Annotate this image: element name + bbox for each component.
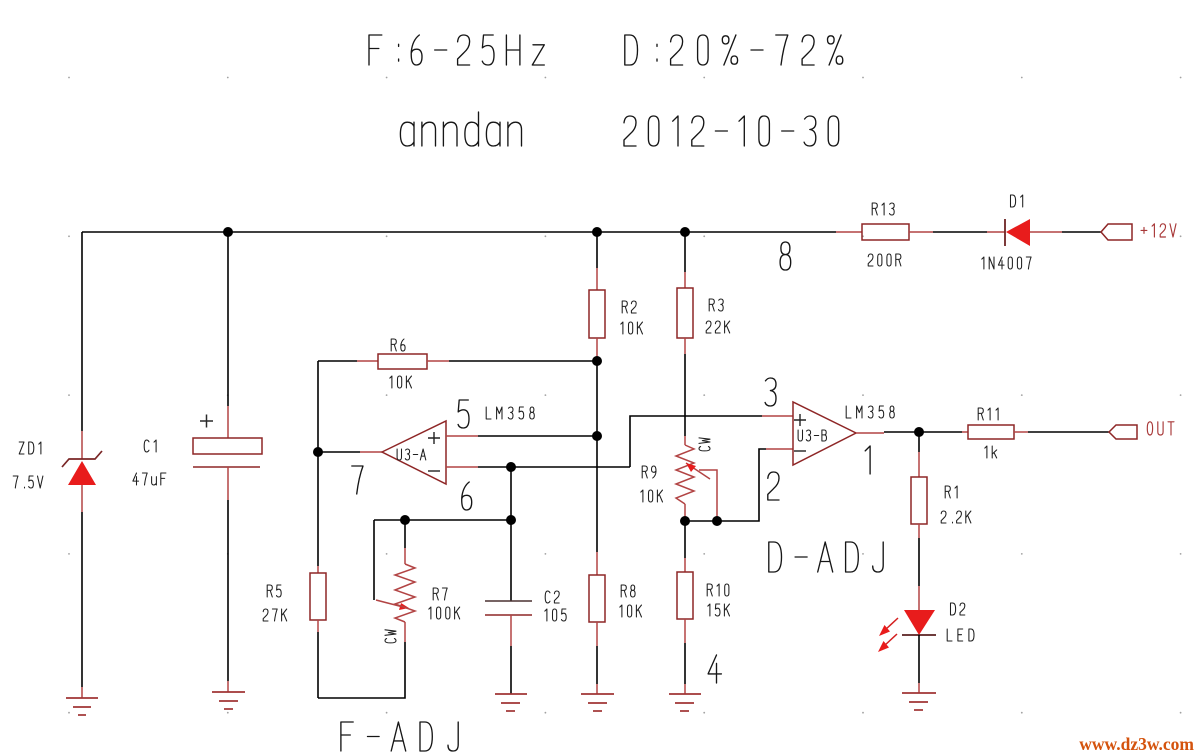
zener ZD1 bar (62, 451, 102, 467)
resistor R8 (589, 575, 605, 622)
pin number 3 (765, 378, 776, 406)
wire U3-A minus red stub (446, 466, 478, 468)
label LM358 A (486, 407, 534, 419)
junction node output/R1 (914, 427, 924, 437)
wire R10 red stub bottom (684, 619, 686, 643)
junction node R6/R2 (592, 356, 602, 366)
capacitor C1 positive plate (193, 438, 262, 454)
wire C1 red stub top (227, 406, 229, 438)
pin number 4 (708, 655, 721, 683)
led D2 cathode bar (902, 634, 936, 636)
label R11 (978, 408, 998, 420)
junction node C2 top (506, 515, 516, 525)
potentiometer R9 zigzag (676, 445, 694, 504)
wire ZD1 column lower (81, 512, 83, 687)
ground ZD1 (66, 698, 98, 715)
label LM358 B (846, 406, 894, 418)
wire R6 right lead black to R2 column (449, 360, 597, 362)
wire R7 top lead red (404, 548, 406, 564)
wire R1 top red (918, 452, 920, 477)
label CW R7 (385, 630, 396, 643)
net label +12V (1141, 224, 1176, 237)
label R10 (707, 584, 729, 596)
value 100K (429, 607, 460, 619)
wire R7 wiper left leg (373, 520, 375, 600)
pin number 1 (865, 446, 870, 474)
wire C1 column lower (227, 500, 229, 681)
wire C1 column upper (227, 232, 229, 406)
resistor R3 (677, 288, 693, 338)
junction node rail/R3 (680, 227, 690, 237)
op-amp U3-B minus sign (794, 450, 806, 452)
label D2 (951, 603, 965, 615)
wire R11 right red stub (1014, 431, 1028, 433)
wire C1 ground stub (227, 681, 229, 692)
junction node R9 bottom (680, 516, 690, 526)
wire D2 bottom (918, 635, 920, 683)
wire D1 to +12V port (1062, 231, 1101, 233)
title anndan (400, 112, 521, 146)
wire R8 red stub bottom (596, 622, 598, 646)
wire rail red stub left of R13 (836, 231, 862, 233)
pin number 6 (462, 482, 472, 510)
label R9 (642, 466, 656, 478)
wire R7 top lead black (404, 520, 406, 548)
pin number 5 (458, 400, 469, 428)
label R2 (622, 301, 636, 313)
wire R6 right lead red (427, 360, 449, 362)
wire R7 bottom to F-ADJ loop (318, 642, 405, 698)
wire R9 red stub bottom (684, 504, 686, 521)
wire D2 top red stub (918, 586, 920, 610)
wire R10 ground stub (684, 684, 686, 694)
value 2.2K (941, 511, 971, 523)
wire U3-A minus across (478, 466, 630, 468)
resistor R11 (968, 425, 1014, 439)
wire rail to D1 (933, 231, 987, 233)
label U3-B (798, 430, 826, 441)
wire R10 column lower (684, 643, 686, 684)
value 27K (263, 609, 287, 621)
wire C2 bottom red (510, 615, 512, 646)
port OUT flag (1109, 425, 1137, 439)
resistor R10 (677, 572, 693, 619)
label R13 (872, 203, 894, 215)
junction node wiper bottom (712, 516, 722, 526)
wire R5 red stub top (317, 566, 319, 573)
wire R3 red stub top (684, 272, 686, 288)
label D-ADJ (769, 542, 883, 572)
label CW R9 (699, 438, 710, 451)
value LED (947, 629, 974, 641)
diode D1 body (1006, 219, 1030, 246)
ground C2 (495, 694, 527, 711)
junction node R7 top (400, 515, 410, 525)
wire U3-A output red stub (360, 451, 382, 453)
ground R8 (581, 694, 614, 711)
wire U3-B output red stub (856, 432, 884, 434)
wire R9 bottom to U3-B minus riser (685, 449, 766, 521)
op-amp U3-A minus sign (428, 470, 440, 472)
junction node minus/C2 riser (506, 462, 516, 472)
wire R11 to OUT port (1028, 431, 1109, 433)
wire red stub U3-B plus (762, 415, 793, 417)
wire R5 red stub bottom (317, 620, 319, 632)
value 200R (868, 254, 901, 266)
wire ZD1 ground stub (81, 687, 83, 698)
wire rail red stub right of R13 (909, 231, 933, 233)
label C2 (545, 591, 559, 603)
wire R6 left lead red (357, 360, 378, 362)
capacitor C1 plus sign (200, 415, 213, 428)
junction node rail/C1 (223, 227, 233, 237)
pin number 7 (352, 466, 363, 494)
wire R2 red stub bottom (596, 338, 598, 361)
value 7.5V (13, 476, 43, 488)
wire R3 red stub bottom (684, 338, 686, 354)
value 105 (545, 609, 566, 621)
wire D2 ground stub (918, 683, 920, 693)
op-amp U3-A (382, 421, 446, 484)
label R1 (945, 486, 957, 498)
op-amp U3-B (793, 402, 856, 465)
wire U3-A plus to R2 column (478, 435, 597, 437)
title F:6-25Hz (369, 35, 544, 65)
capacitor C1 negative plate (193, 466, 260, 468)
value 10K R2 (621, 322, 643, 334)
wire R3 to R9 (684, 354, 686, 436)
resistor R1 (911, 477, 927, 524)
wire R10 red stub top (684, 558, 686, 572)
wire R7 top rail (374, 519, 511, 521)
label R5 (267, 585, 281, 597)
label R6 (391, 339, 405, 351)
led D2 light arrows (878, 618, 898, 652)
capacitor C2 top plate (485, 600, 532, 602)
wire ZD1 red stub top (81, 431, 83, 459)
wire top rail black (82, 231, 836, 233)
wire C2 riser (510, 467, 512, 520)
label R3 (709, 299, 723, 311)
label F-ADJ (341, 722, 458, 751)
label R7 (433, 588, 447, 600)
junction node plus input/R2 column (592, 431, 602, 441)
wire R6 left lead black (318, 360, 357, 362)
value 15K (708, 604, 730, 616)
op-amp U3-A plus sign (428, 432, 440, 444)
wire R5 bottom leg (317, 632, 319, 698)
value 47uF (133, 473, 166, 485)
wire R7 bottom lead red (404, 622, 406, 642)
wire C1 red stub bottom (227, 467, 229, 500)
label ZD1 (19, 442, 41, 454)
wire R1 top black (918, 432, 920, 452)
wire R2 column from rail (596, 232, 598, 268)
pin number 2 (768, 472, 779, 500)
resistor R13 (862, 224, 909, 240)
ground C1 (212, 692, 245, 709)
wire R1 to D2 (918, 538, 920, 586)
wire R3 column from rail (684, 232, 686, 272)
wire R9 red stub top (684, 436, 686, 445)
wire red stub right of D1 (1030, 231, 1062, 233)
title D:20%-72% (625, 35, 843, 65)
wire red stub left of D1 (987, 231, 1005, 233)
wire feedback left column (317, 361, 319, 566)
net label OUT (1147, 422, 1174, 435)
value 1N4007 (982, 257, 1031, 269)
wire ZD1 red stub bottom (81, 485, 83, 512)
ground D2 (902, 693, 936, 710)
title 2012-10-30 (624, 116, 839, 146)
wire R8 ground stub (596, 684, 598, 694)
wire R10 top (684, 521, 686, 558)
label R8 (621, 585, 635, 597)
wire R2 column mid (596, 361, 598, 552)
value 10K R9 (641, 490, 663, 502)
wire C2 top lead (510, 520, 512, 601)
wire R8 red stub top (596, 552, 598, 575)
wire R2 red stub top (596, 268, 598, 290)
potentiometer R7 zigzag (395, 564, 415, 622)
junction node U3-A output (313, 447, 323, 457)
wire R8 column lower (596, 646, 598, 684)
wire R11 left red stub (962, 431, 968, 433)
resistor R5 (310, 573, 326, 620)
power port +12V flag (1101, 224, 1132, 240)
junction node rail/R2 (592, 227, 602, 237)
svg-text:www.dz3w.com: www.dz3w.com (1079, 734, 1194, 754)
capacitor C2 bottom plate (485, 614, 532, 616)
ground R10 (669, 694, 701, 711)
wire R1 bottom red (918, 524, 920, 538)
wire U3-A plus red stub (446, 435, 478, 437)
wire U3-B output black (884, 431, 962, 433)
label C1 (144, 440, 156, 452)
led D2 body (904, 610, 935, 635)
label D1 (1011, 195, 1023, 207)
wire red stub U3-B minus (766, 448, 793, 450)
resistor R2 (589, 290, 605, 338)
value 1k (985, 446, 997, 458)
resistor R6 (378, 354, 427, 369)
wire ZD1 column upper (81, 232, 83, 431)
zener ZD1 body (68, 461, 96, 485)
value 10K R6 (390, 376, 412, 388)
value 10K R8 (620, 605, 642, 617)
op-amp U3-B plus sign (794, 414, 806, 426)
wire C2 bottom black (510, 646, 512, 694)
potentiometer R9 wiper arrow (686, 463, 717, 521)
pin number 8 (780, 242, 791, 270)
label U3-A (397, 449, 426, 460)
potentiometer R7 wiper arrow (376, 600, 409, 610)
diode D1 cathode bar (1004, 219, 1006, 246)
wire U3-A output black (318, 451, 360, 453)
wire riser minus to U3-B plus (630, 416, 762, 467)
value 22K (706, 321, 730, 333)
